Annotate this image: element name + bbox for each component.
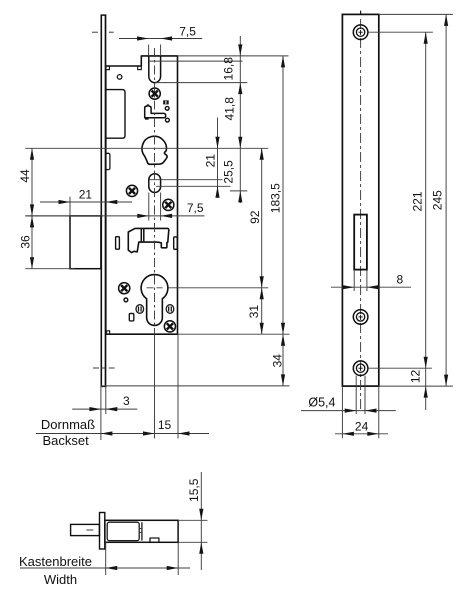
dim line 21 left	[40, 201, 132, 203]
lock case outline (front view)	[106, 56, 178, 334]
case bottom-left tab	[107, 331, 110, 334]
ext strip bottom	[379, 385, 453, 387]
dim line 183.5/34	[282, 56, 284, 386]
bottom view: inner pocket	[107, 522, 139, 540]
svg-text:41,8: 41,8	[223, 97, 237, 121]
screw mark bottom right dash	[109, 367, 115, 369]
screw S5	[164, 321, 175, 332]
ext faceplate front down	[100, 387, 102, 441]
lever pivot square	[163, 100, 169, 104]
faceplate bottom cap	[101, 385, 107, 387]
lever pin ring A	[165, 106, 169, 110]
dim line width / label underline	[20, 567, 190, 569]
svg-text:12: 12	[409, 370, 423, 384]
screw hole bottom	[353, 361, 368, 376]
ext centerline down	[154, 334, 156, 438]
lever pin ring B	[166, 118, 170, 122]
svg-text:44: 44	[18, 169, 32, 183]
screw S4	[119, 283, 130, 294]
svg-text:21: 21	[204, 154, 218, 168]
case top-left tab	[106, 66, 110, 70]
latch bolt block (protruding)	[70, 216, 101, 269]
faceplate left line	[100, 15, 102, 386]
dim line 21 right	[217, 118, 219, 198]
bolt hole left	[136, 305, 144, 314]
svg-text:3: 3	[123, 394, 130, 408]
ext slot bottom	[155, 82, 247, 84]
ext case bottom right	[178, 541, 207, 543]
dim line 221/12	[425, 32, 427, 410]
latch head left guide	[116, 237, 120, 250]
ext cylinder center	[169, 287, 269, 289]
svg-text:21: 21	[79, 188, 93, 202]
svg-text:16,8: 16,8	[222, 57, 236, 81]
ext screw top center	[368, 31, 433, 33]
svg-text:92: 92	[248, 210, 262, 224]
svg-text:Dornmaß: Dornmaß	[41, 417, 95, 432]
bottom view: lock case	[105, 520, 178, 542]
ext screw bottom center	[367, 367, 432, 369]
screw S2	[126, 185, 137, 196]
case internal edge line	[150, 60, 243, 62]
bottom view: latch protruding	[71, 524, 100, 535]
svg-text:8: 8	[396, 272, 403, 286]
ext latch tip up	[69, 197, 71, 216]
ext case top right	[178, 55, 289, 57]
ext latch block top left	[25, 215, 74, 217]
svg-text:Width: Width	[44, 572, 77, 587]
screw mark top right dash	[109, 31, 114, 33]
divider tick A	[139, 528, 142, 530]
svg-text:15: 15	[158, 418, 172, 432]
latch head right guide	[174, 237, 178, 249]
oval slot	[149, 174, 161, 193]
ext follower center	[25, 147, 268, 149]
ext faceplate bottom long	[101, 385, 290, 387]
dim line 44/36	[31, 148, 33, 268]
svg-text:183,5: 183,5	[269, 183, 283, 213]
dim line 92/31	[261, 148, 263, 334]
ext screw S2 center short	[230, 190, 247, 192]
dim line 15.5	[200, 472, 202, 570]
screw hole top	[353, 25, 368, 40]
svg-text:7,5: 7,5	[187, 201, 204, 215]
lever arm	[145, 105, 166, 118]
bottom view divider	[141, 522, 143, 540]
screw S3	[163, 199, 174, 210]
latch head	[128, 228, 169, 252]
dim line 7.5 mid / block top	[25, 215, 204, 217]
latch head band line A	[140, 228, 142, 242]
vertical centerline front view	[154, 48, 156, 334]
ext case top right	[178, 519, 207, 521]
small slot rect	[129, 314, 134, 321]
ext case bottom	[178, 333, 290, 335]
svg-text:34: 34	[271, 354, 285, 368]
slot in strip	[354, 215, 367, 270]
svg-text:Kastenbreite: Kastenbreite	[19, 554, 92, 569]
small hole top-left	[117, 75, 122, 80]
screw S1	[149, 88, 160, 99]
svg-text:221: 221	[411, 191, 425, 211]
ext oval lower arc center	[156, 185, 231, 187]
internal pocket rectangle	[106, 90, 125, 139]
svg-text:24: 24	[355, 420, 369, 434]
bolt hole right	[166, 305, 174, 314]
bottom view: faceplate bar	[100, 513, 105, 550]
faceplate top cap	[101, 14, 107, 16]
svg-text:245: 245	[431, 190, 445, 210]
cylinder horizontal centerline	[147, 287, 163, 289]
svg-text:Backset: Backset	[42, 433, 89, 448]
top center tick	[360, 11, 362, 15]
svg-text:31: 31	[247, 305, 261, 319]
dim line 16.8/41.8/25.5	[239, 36, 241, 203]
dim diameter 5.4	[355, 376, 357, 414]
ext oval upper arc center	[150, 179, 223, 181]
latch center dash	[86, 529, 93, 531]
faceplate strip (side view)	[342, 14, 378, 386]
svg-text:25,5: 25,5	[222, 160, 236, 184]
spindle follower	[142, 136, 167, 164]
dim line 245	[445, 14, 447, 386]
dim 7.5 top	[148, 45, 150, 56]
ext latch block bottom left	[25, 268, 74, 270]
case top step tab	[138, 66, 142, 70]
svg-text:15,5: 15,5	[187, 478, 201, 502]
latch guide slot	[149, 56, 161, 83]
dim line 3	[72, 408, 137, 410]
dim 24 strip width	[341, 386, 343, 438]
svg-text:7,5: 7,5	[179, 25, 196, 39]
screw mark bottom mid dash	[101, 367, 105, 369]
screw hole middle	[353, 310, 368, 325]
screw mark bottom left dash	[93, 367, 99, 369]
euro profile cylinder hole	[141, 275, 168, 326]
latch head band line B	[143, 228, 145, 242]
ext case front down	[105, 542, 107, 575]
divider tick B	[139, 532, 142, 534]
svg-text:Ø5,4: Ø5,4	[308, 396, 335, 410]
dim line backset/15	[36, 433, 209, 435]
ext case back down	[177, 542, 179, 575]
D-tab on case edge	[106, 153, 110, 169]
svg-text:36: 36	[19, 235, 33, 249]
small pin hole	[124, 298, 128, 302]
ext oval left down	[148, 193, 150, 221]
ext strip top	[379, 13, 453, 15]
faceplate right line	[105, 15, 107, 386]
ext oval right down	[160, 193, 162, 221]
screw mark top left dash	[92, 31, 98, 33]
ext case back down	[177, 334, 179, 438]
bottom view: small tab	[150, 538, 159, 542]
strip centerline	[360, 19, 362, 410]
ext faceplate back down	[105, 387, 107, 415]
dim 8 slot width	[353, 270, 355, 291]
